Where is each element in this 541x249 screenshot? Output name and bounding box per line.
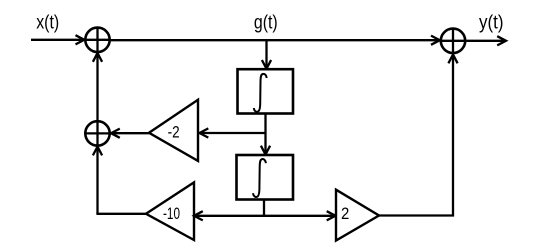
wire gain -2 output to summing junction S2 — [113, 132, 149, 134]
wire g(t) tap down to integrator U1 — [265, 41, 267, 68]
integrator U2 symbol — [253, 159, 266, 197]
arrowhead into S1 bottom — [93, 53, 102, 62]
integrator U2 box — [237, 155, 294, 200]
svg-text:2: 2 — [341, 205, 349, 223]
wire S3 to output y(t) — [466, 40, 504, 42]
svg-text:-2: -2 — [168, 123, 180, 141]
summing junction S2 — [85, 121, 111, 147]
wire junction branch to gain -2 — [201, 132, 266, 134]
arrowhead into S2 bottom — [93, 147, 102, 156]
wire U2 output drop — [263, 200, 265, 216]
arrowhead into U1 top — [262, 60, 271, 69]
wire S2 up to S1 — [96, 55, 98, 121]
arrowhead into gain -2 right edge — [200, 128, 209, 137]
svg-text:x(t): x(t) — [36, 12, 59, 34]
integrator U1 symbol — [254, 74, 267, 112]
wire bottom rail left to gain -10 — [196, 215, 264, 217]
wire U1 output down to integrator U2 — [264, 114, 266, 154]
gain block -2 triangle — [149, 100, 198, 161]
arrowhead output tip — [497, 36, 506, 45]
summing junction S3 — [440, 28, 466, 54]
gain block -10 triangle — [146, 182, 194, 240]
svg-text:y(t): y(t) — [479, 12, 504, 34]
svg-text:g(t): g(t) — [254, 12, 278, 34]
arrowhead into S2 right — [111, 129, 120, 138]
integrator U1 box — [238, 69, 294, 113]
arrowhead into gain 2 left edge — [327, 211, 336, 220]
arrowhead into S3 bottom — [448, 55, 457, 64]
gain block 2 triangle — [336, 190, 379, 241]
arrowhead into S1 left — [76, 35, 85, 44]
arrowhead into S3 left — [431, 36, 440, 45]
wire gain 2 output to riser — [379, 57, 453, 216]
wire feedback riser into S2 from below — [96, 149, 98, 214]
svg-text:-10: -10 — [163, 205, 180, 223]
wire bottom rail right to gain 2 — [264, 215, 334, 217]
summing junction S1 — [85, 27, 111, 53]
arrowhead into U2 top — [261, 146, 270, 155]
arrowhead into gain -10 right edge — [194, 211, 203, 220]
wire top rail S1 to S3 — [111, 39, 438, 41]
wire bottom-left corner to gain -10 tip — [96, 213, 146, 215]
wire input x(t) to summing junction S1 — [31, 39, 83, 41]
